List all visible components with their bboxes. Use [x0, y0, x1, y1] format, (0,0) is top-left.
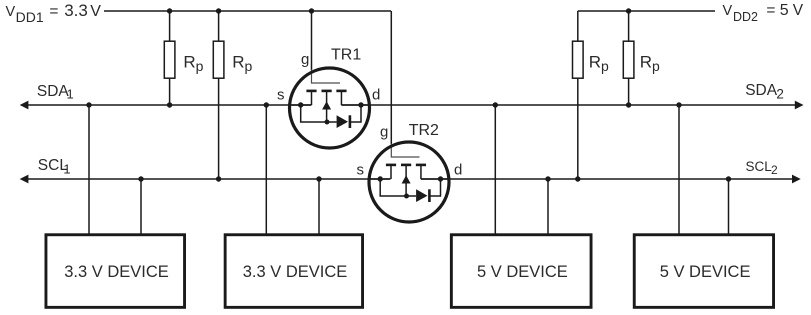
svg-text:p: p	[196, 58, 204, 74]
svg-text:3.3 V DEVICE: 3.3 V DEVICE	[243, 263, 348, 281]
svg-text:p: p	[652, 58, 660, 74]
svg-text:s: s	[277, 86, 285, 103]
svg-text:=: =	[766, 2, 775, 19]
svg-text:d: d	[454, 161, 462, 178]
svg-text:SDA: SDA	[745, 82, 778, 99]
svg-text:p: p	[601, 58, 609, 74]
svg-text:2: 2	[771, 163, 778, 177]
svg-text:V: V	[793, 2, 804, 19]
svg-text:1: 1	[67, 87, 74, 102]
svg-text:5 V DEVICE: 5 V DEVICE	[477, 263, 568, 281]
svg-text:2: 2	[776, 86, 784, 101]
svg-text:g: g	[380, 124, 388, 141]
svg-text:g: g	[301, 51, 309, 68]
svg-text:p: p	[245, 58, 253, 74]
svg-text:TR1: TR1	[331, 46, 361, 63]
svg-text:V: V	[723, 3, 733, 19]
svg-text:=: =	[49, 3, 58, 20]
svg-text:d: d	[372, 86, 380, 103]
svg-text:1: 1	[63, 161, 70, 176]
svg-text:SCL: SCL	[746, 159, 773, 174]
svg-text:3.3: 3.3	[64, 1, 88, 20]
svg-text:TR2: TR2	[409, 122, 439, 139]
svg-text:3.3 V DEVICE: 3.3 V DEVICE	[64, 263, 169, 281]
svg-text:DD1: DD1	[16, 9, 44, 25]
svg-text:V: V	[90, 3, 101, 20]
svg-text:R: R	[183, 52, 195, 71]
svg-text:SDA: SDA	[37, 83, 70, 100]
svg-text:V: V	[6, 4, 16, 20]
svg-text:DD2: DD2	[733, 10, 758, 24]
svg-text:R: R	[589, 52, 601, 71]
svg-text:R: R	[640, 52, 652, 71]
svg-text:s: s	[357, 161, 365, 178]
svg-text:5 V DEVICE: 5 V DEVICE	[660, 263, 751, 281]
svg-text:5: 5	[780, 2, 789, 19]
svg-text:R: R	[232, 52, 244, 71]
